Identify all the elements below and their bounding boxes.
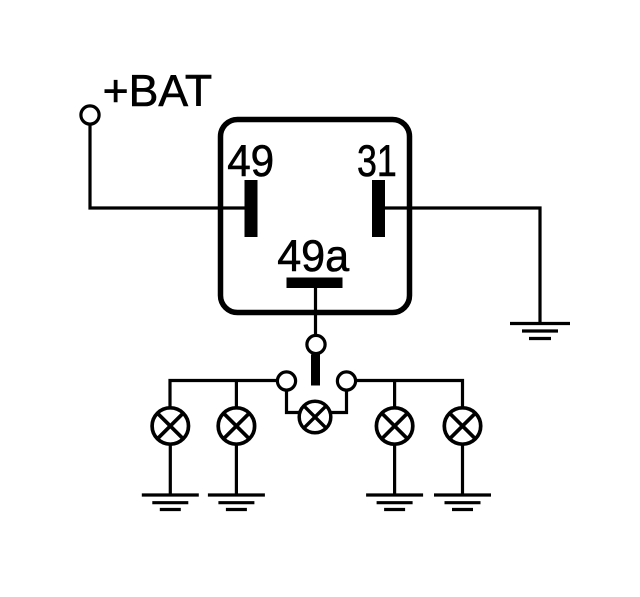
switch S1 left contact: [277, 372, 295, 390]
indicator lamp L3: [299, 401, 331, 433]
wire lamp L5 to ground: [461, 445, 464, 496]
wire pin 31 to ground: [385, 208, 540, 324]
wire right contact to indicator lamp: [331, 390, 347, 413]
ground (pin 31): [510, 324, 570, 339]
svg-text:+BAT: +BAT: [103, 67, 213, 116]
svg-text:49: 49: [227, 137, 274, 186]
wire left branch junction drop: [235, 381, 238, 408]
switch S1 lever: [311, 355, 320, 386]
wire right branch junction drop: [393, 381, 396, 408]
lamp L5: [444, 408, 480, 444]
svg-text:31: 31: [357, 137, 397, 186]
pin 31: [372, 180, 385, 237]
wire left contact to indicator lamp: [287, 390, 300, 413]
wire lamp L4 to ground: [393, 445, 396, 496]
wire battery to pin 49: [90, 125, 249, 209]
lamp L1: [152, 408, 188, 444]
ground (lamp L2): [208, 495, 265, 510]
pin 49a: [287, 278, 343, 289]
svg-text:49a: 49a: [277, 232, 349, 281]
ground (lamp L1): [142, 495, 199, 510]
wire lamp L2 to ground: [235, 445, 238, 496]
lamp L2: [218, 408, 254, 444]
switch S1 common terminal: [307, 335, 325, 353]
wire left branch: [170, 381, 278, 408]
terminal +BAT: [81, 106, 99, 124]
ground (lamp L4): [366, 495, 423, 510]
ground (lamp L5): [434, 495, 491, 510]
wire pin 49a to switch: [314, 288, 317, 336]
wire right branch: [355, 381, 463, 408]
relay K1 body: [221, 120, 410, 313]
lamp L4: [376, 408, 412, 444]
pin 49: [245, 180, 258, 237]
switch S1 right contact: [337, 372, 355, 390]
wire lamp L1 to ground: [169, 445, 172, 496]
